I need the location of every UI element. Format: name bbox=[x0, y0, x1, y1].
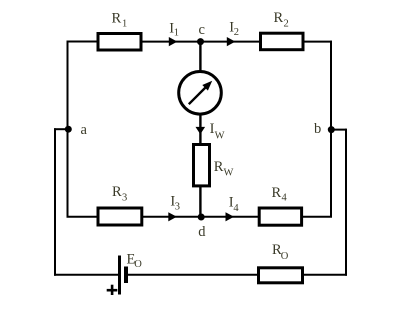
node c bbox=[197, 38, 204, 45]
svg-text:R: R bbox=[274, 10, 284, 26]
current arrow IW bbox=[196, 127, 206, 134]
label RO bbox=[272, 242, 289, 262]
battery EO bbox=[118, 256, 128, 295]
resistor RW bbox=[194, 145, 210, 186]
node d bbox=[198, 214, 205, 221]
current arrow I1 bbox=[169, 37, 178, 46]
node b bbox=[328, 126, 335, 133]
wire outer left vertical bbox=[54, 128, 56, 276]
wire bottom bridge rail left segment bbox=[67, 216, 99, 218]
wire bottom bridge rail middle segment bbox=[143, 216, 259, 218]
svg-text:O: O bbox=[281, 251, 289, 262]
wire right vertical (b branch) bbox=[330, 41, 332, 218]
resistor R2 bbox=[261, 33, 304, 50]
wire outer right vertical bbox=[345, 129, 347, 276]
label I4 bbox=[229, 195, 240, 214]
galvanometer G bbox=[179, 72, 222, 115]
resistor R1 bbox=[98, 34, 141, 51]
node a bbox=[65, 126, 72, 133]
current arrow I3 bbox=[168, 212, 177, 221]
wire top rail left segment bbox=[67, 41, 99, 43]
svg-text:2: 2 bbox=[284, 19, 289, 30]
wire left vertical (a branch) bbox=[67, 41, 69, 218]
svg-text:b: b bbox=[314, 121, 321, 137]
label R3 bbox=[112, 184, 127, 204]
svg-text:3: 3 bbox=[122, 193, 127, 204]
svg-text:W: W bbox=[215, 131, 225, 142]
svg-text:1: 1 bbox=[174, 28, 179, 39]
wire top rail right segment bbox=[303, 41, 332, 43]
svg-text:R: R bbox=[272, 185, 282, 201]
svg-text:R: R bbox=[112, 11, 122, 27]
svg-text:R: R bbox=[112, 184, 122, 200]
label R4 bbox=[272, 185, 288, 204]
svg-text:4: 4 bbox=[282, 193, 288, 204]
label EO bbox=[127, 252, 143, 271]
label I2 bbox=[229, 20, 239, 39]
wire bottom rail right segment bbox=[303, 274, 347, 276]
svg-text:c: c bbox=[199, 22, 205, 38]
label I1 bbox=[169, 20, 179, 38]
wire bottom bridge rail right segment bbox=[303, 216, 333, 218]
label R2 bbox=[274, 10, 289, 30]
wire node a stub bbox=[54, 128, 69, 130]
label RW bbox=[214, 159, 234, 179]
svg-text:d: d bbox=[198, 224, 206, 240]
label R1 bbox=[112, 11, 128, 30]
svg-text:2: 2 bbox=[234, 27, 239, 38]
wire galvanometer top lead bbox=[199, 42, 201, 73]
svg-text:1: 1 bbox=[122, 19, 127, 30]
wire RW bottom lead bbox=[199, 186, 201, 218]
resistor R3 bbox=[98, 208, 142, 225]
label I3 bbox=[170, 194, 180, 213]
wire top rail middle segment bbox=[142, 41, 261, 43]
battery plus sign bbox=[107, 285, 118, 295]
resistor RO bbox=[259, 268, 303, 283]
svg-text:4: 4 bbox=[233, 203, 239, 214]
wire node b stub bbox=[330, 129, 347, 131]
svg-text:O: O bbox=[134, 259, 142, 270]
current arrow I2 bbox=[227, 37, 236, 46]
wire galvanometer bottom lead bbox=[199, 113, 201, 145]
svg-text:a: a bbox=[81, 122, 88, 138]
svg-text:R: R bbox=[214, 159, 224, 175]
wire bottom rail middle segment bbox=[128, 274, 258, 276]
label IW bbox=[210, 121, 225, 141]
svg-text:3: 3 bbox=[175, 202, 180, 213]
wire bottom rail left segment bbox=[54, 274, 119, 276]
current arrow I4 bbox=[226, 212, 235, 221]
svg-text:W: W bbox=[224, 168, 234, 179]
resistor R4 bbox=[259, 208, 301, 225]
